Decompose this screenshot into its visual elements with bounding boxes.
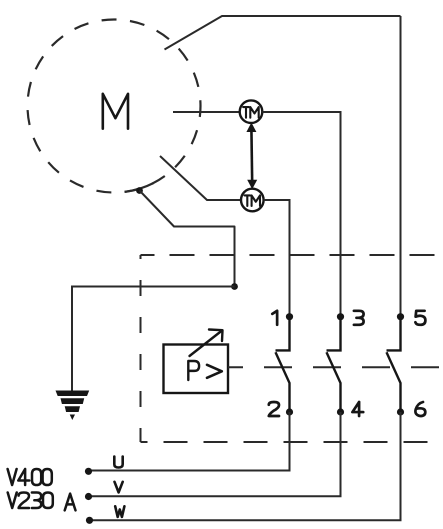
- TM2 label TM: [245, 195, 261, 206]
- wire: TM2 to contact 1: [264, 200, 290, 317]
- terminal 5 node: [397, 313, 404, 320]
- label 3: [354, 311, 364, 325]
- label V400: [8, 469, 52, 485]
- label U: [114, 457, 122, 468]
- pressure switch enclosure (dashed box): [141, 255, 443, 442]
- junction node: [231, 283, 238, 290]
- breaker contact 3-4: [327, 317, 341, 412]
- breaker contact 5-6: [387, 317, 401, 412]
- ground (earth) symbol: [56, 391, 90, 421]
- pressure switch actuating arrow: [190, 330, 223, 357]
- pressure switch P> box: [164, 345, 229, 394]
- label W: [115, 506, 124, 517]
- label 4: [352, 402, 363, 416]
- thermal linkage between TM1 and TM2: [250, 128, 253, 184]
- wire: contact 4 down to rail V: [89, 412, 341, 496]
- terminal 3 node: [337, 313, 344, 320]
- wire: star point down to junction: [140, 191, 235, 287]
- mechanical linkage (dashed) from P> to contacts: [228, 366, 443, 368]
- terminal 6 node: [397, 408, 404, 415]
- rail U terminal node: [85, 468, 92, 475]
- wire: motor terminal to top rail: [165, 16, 401, 50]
- wire: contact 6 down to rail W: [90, 412, 401, 520]
- label 6: [415, 402, 425, 416]
- label 5: [415, 311, 425, 325]
- pressure switch label P: [188, 361, 199, 380]
- terminal 4 node: [337, 408, 344, 415]
- breaker contact 1-2: [276, 317, 290, 412]
- label A: [65, 494, 76, 511]
- terminal 2 node: [286, 408, 293, 415]
- wire: TM1 to contact 3: [262, 112, 340, 317]
- label 2: [269, 402, 279, 416]
- label 1: [272, 311, 277, 325]
- TM1 label TM: [243, 107, 259, 118]
- rail V terminal node: [85, 493, 92, 500]
- wire: motor terminal to TM2: [160, 156, 241, 200]
- pressure switch label >: [207, 365, 222, 378]
- wire: top rail down to contact 5: [400, 16, 402, 317]
- wire: motor terminal to TM1: [173, 111, 240, 113]
- thermal switch TM1: [240, 100, 263, 123]
- label V: [115, 482, 123, 493]
- wire: contact 2 down to rail U: [89, 412, 290, 471]
- terminal 1 node: [286, 313, 293, 320]
- label V230: [8, 493, 53, 509]
- thermal switch TM2: [241, 189, 264, 212]
- wire: junction to ground: [72, 287, 235, 392]
- motor star-point terminal node: [136, 187, 143, 194]
- motor label M: [103, 94, 128, 129]
- motor M1 dashed circle: [28, 20, 201, 193]
- rail W terminal node: [86, 517, 93, 524]
